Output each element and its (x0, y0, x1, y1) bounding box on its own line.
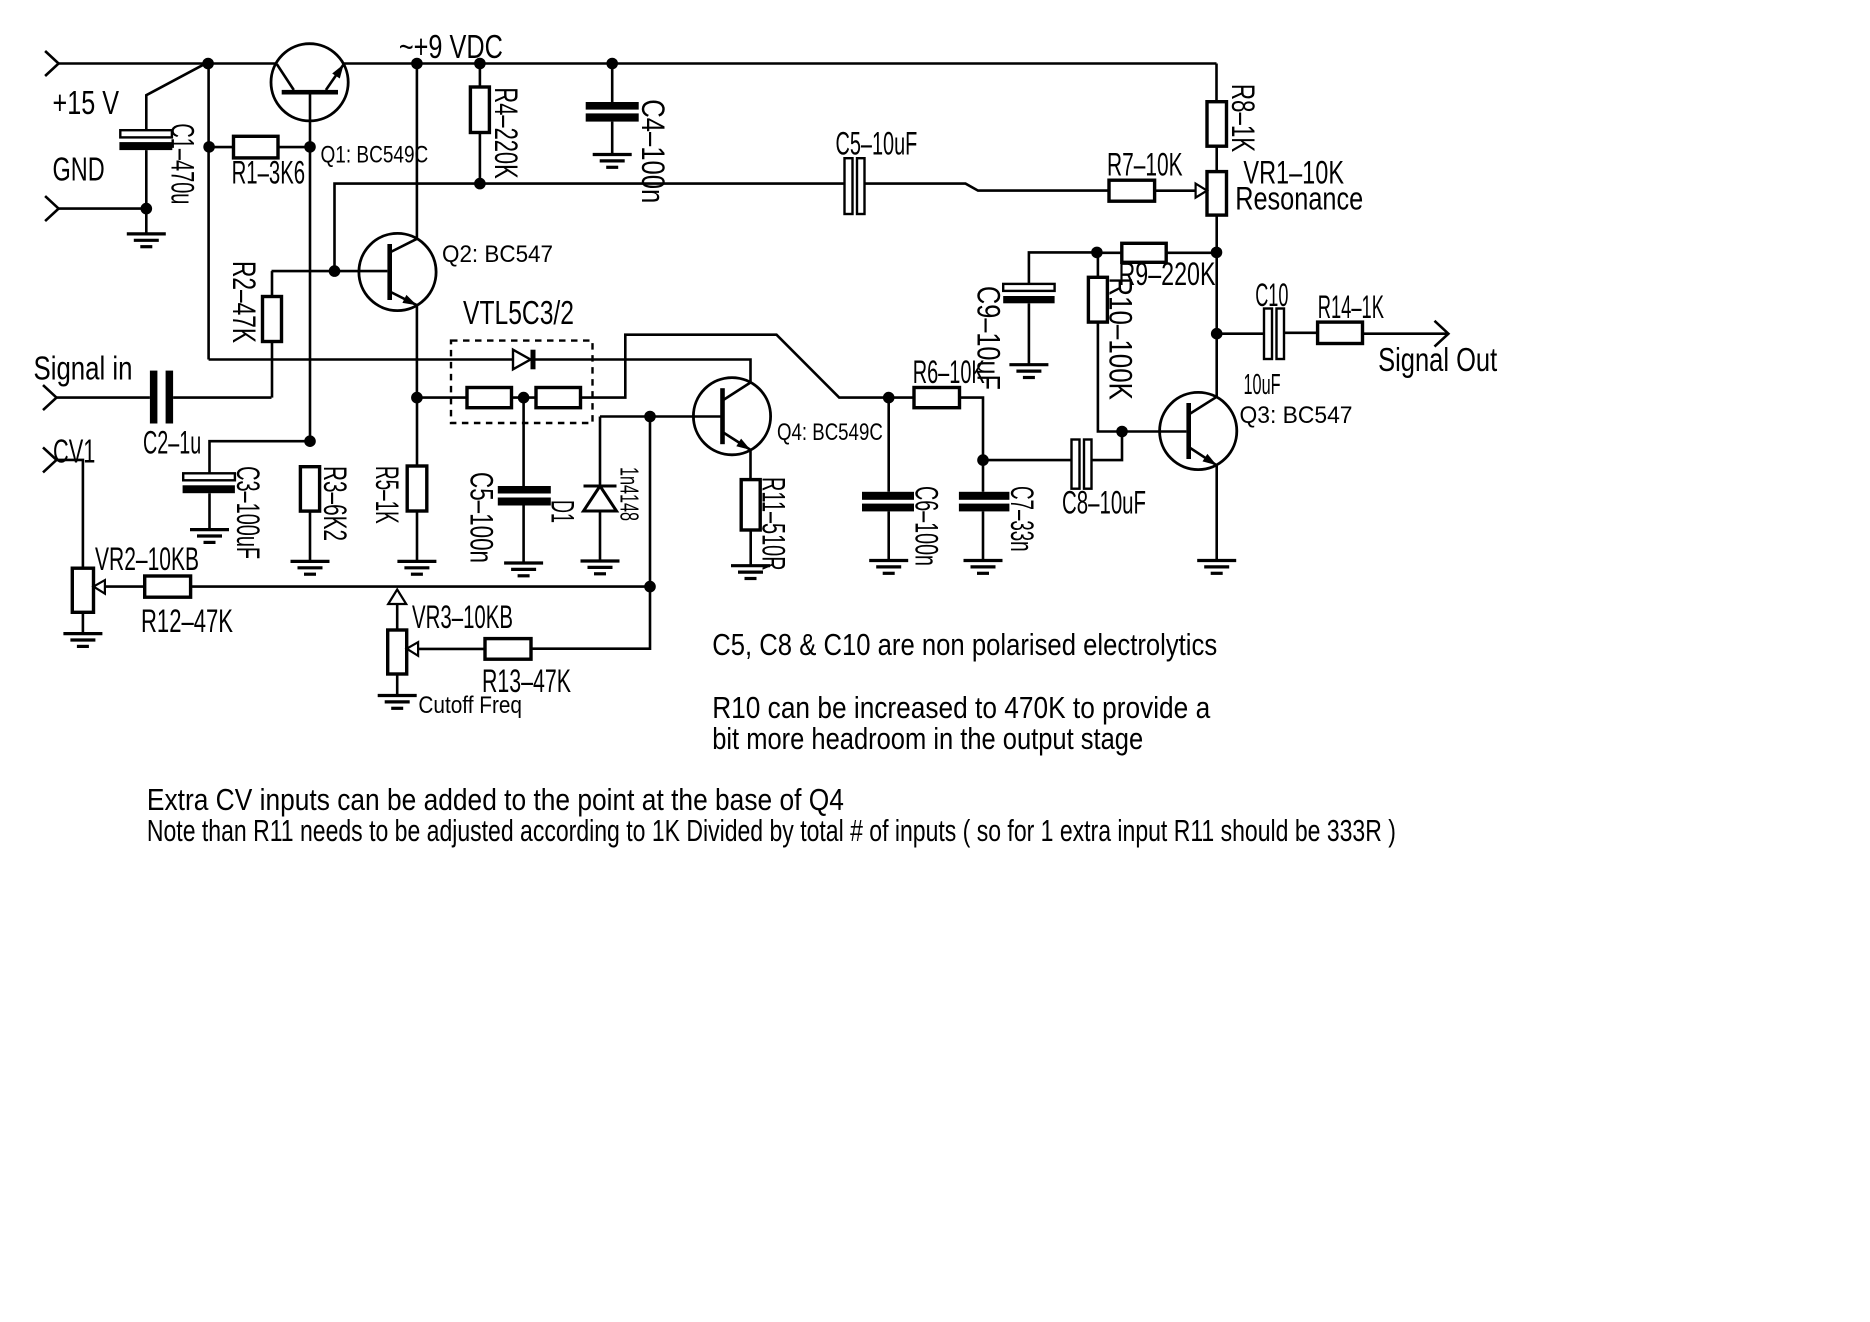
wire R12 to Q4 base vertical (191, 585, 650, 588)
potentiometer VR1 10K Resonance (1196, 146, 1227, 252)
junction R6 left / C6 node (883, 392, 895, 404)
resistor R4 220K (470, 64, 489, 184)
svg-text:C4–100n: C4–100n (635, 99, 671, 203)
resistor R3 6K2 (300, 467, 319, 562)
ground C1 (127, 234, 166, 247)
capacitor C6 100n (862, 398, 914, 561)
connector Signal Out arrow (1435, 321, 1449, 347)
svg-text:C5, C8 & C10 are non polarised: C5, C8 & C10 are non polarised electroly… (712, 628, 1217, 662)
capacitor C7 33n (959, 460, 1010, 560)
ground R11 (731, 566, 770, 579)
svg-text:C2–1u: C2–1u (143, 425, 201, 461)
svg-text:R10 can be increased to 470K t: R10 can be increased to 470K to provide … (712, 691, 1211, 725)
svg-text:C1–470u: C1–470u (165, 123, 201, 204)
svg-text:C5–100n: C5–100n (464, 472, 500, 563)
capacitor C1 470u polarised (119, 130, 172, 234)
junction GND-C1 (141, 203, 153, 215)
svg-text:R7–10K: R7–10K (1107, 147, 1183, 183)
svg-text:C3–100uF: C3–100uF (230, 466, 266, 559)
junction LDR centre node (518, 392, 530, 404)
wire GND input to C1 (59, 207, 147, 210)
resistor R5 1K (407, 398, 427, 562)
resistor R6 10K (889, 388, 960, 408)
wire Q4 base node down to R12/R13 node (649, 417, 652, 587)
junction Q4 base node (644, 411, 656, 423)
svg-text:CV1: CV1 (53, 432, 95, 469)
svg-text:C8–10uF: C8–10uF (1062, 485, 1146, 521)
resistor R11 510R (741, 480, 760, 566)
wire LDR centre down to C5b (522, 398, 525, 486)
wire Q4 emitter to R11 (749, 450, 752, 480)
ground C5b (504, 563, 543, 576)
junction rail-R4 (474, 58, 486, 70)
svg-text:VTL5C3/2: VTL5C3/2 (463, 294, 574, 331)
ground R3 (291, 561, 330, 574)
resistor R8 1K (1207, 102, 1227, 147)
ground VR3 (378, 696, 417, 709)
svg-text:Q2: BC547: Q2: BC547 (442, 241, 553, 268)
vactrol LDR element 2 (536, 388, 581, 408)
ground C3 (190, 530, 229, 543)
wire rail to C1 diagonal (146, 62, 208, 130)
svg-text:10uF: 10uF (1244, 369, 1281, 401)
diode D1 1n4148 (584, 417, 617, 562)
wire R10 down to Q3 base node (1098, 322, 1122, 431)
junction R1 left (203, 141, 215, 153)
wire Signal in to C2 (57, 396, 150, 399)
resistor R1 3K6 (209, 136, 310, 158)
junction R4 bottom (474, 178, 486, 190)
ground C4 (593, 155, 632, 168)
wire ~+9VDC rail from Q1 emitter (344, 62, 1217, 65)
wire LDR2 right up and over to R6 (581, 335, 889, 398)
wire Q3 base (1122, 430, 1186, 433)
svg-text:R13–47K: R13–47K (482, 663, 571, 699)
svg-text:Resonance: Resonance (1235, 181, 1363, 217)
capacitor C5 100n (498, 486, 551, 563)
ground D1 (581, 561, 620, 574)
ground Q3 emitter (1197, 561, 1236, 574)
connector CV1 (43, 447, 57, 472)
ground C9 (1009, 365, 1048, 378)
junction rail-Q2 collector (411, 58, 423, 70)
junction R9 right on main vertical (1211, 247, 1223, 259)
transistor Q1 BC549C (271, 44, 348, 121)
junction C7/C8 node (977, 454, 989, 466)
connector +15V input (45, 51, 59, 76)
svg-text:1n4148: 1n4148 (615, 467, 645, 521)
junction R1 right / Q1 base (304, 141, 316, 153)
wire Q3 emitter to ground (1215, 465, 1218, 560)
wire C2 to R2 bottom (173, 396, 271, 399)
capacitor C9 10uF polarised (1003, 252, 1097, 364)
svg-text:R1–3K6: R1–3K6 (232, 155, 306, 191)
svg-text:R5–1K: R5–1K (369, 466, 405, 524)
svg-text:VR2–10KB: VR2–10KB (95, 541, 199, 577)
wire Q2 emitter down to LDR node (416, 305, 419, 397)
junction rail-C4 (606, 58, 618, 70)
junction C3/R3 node (304, 435, 316, 447)
junction R10 top / C9 node (1091, 247, 1103, 259)
wire rail junction down to diode row (207, 64, 210, 360)
wire rail down to Q2 collector (416, 64, 419, 239)
wire LDR1 to LDR2 (512, 396, 537, 399)
wire VR1 bottom to Q3 collector (1215, 252, 1218, 396)
potentiometer VR2 10KB (72, 568, 105, 633)
junction Q2 base node (329, 265, 341, 277)
capacitor C4 100n (586, 64, 639, 155)
transistor Q3 BC547 (1160, 392, 1237, 469)
svg-text:C9–10uF: C9–10uF (971, 286, 1007, 390)
wire CV1 to VR2 (57, 460, 83, 568)
svg-text:+15 V: +15 V (53, 84, 120, 121)
wire +15V rail to Q1 collector (59, 62, 277, 65)
svg-text:C10: C10 (1255, 277, 1288, 313)
svg-text:Q1: BC549C: Q1: BC549C (321, 142, 429, 169)
svg-text:C6–100n: C6–100n (909, 486, 945, 566)
svg-text:Signal in: Signal in (34, 349, 133, 386)
svg-text:R11–510R: R11–510R (756, 477, 792, 571)
svg-text:R12–47K: R12–47K (141, 603, 233, 639)
svg-text:Q4: BC549C: Q4: BC549C (777, 419, 883, 446)
resistor R10 100K (1088, 252, 1107, 322)
capacitor C2 1u (150, 371, 173, 424)
svg-text:VR3–10KB: VR3–10KB (412, 599, 513, 635)
junction R12/VR3/R13 node (644, 581, 656, 593)
wire Q1 base down to C3/R3 node (309, 92, 312, 441)
ground C6 (869, 561, 908, 574)
wire R4 node to C5 (480, 182, 845, 185)
junction C10 node (1211, 328, 1223, 340)
wire R6 to C7/C8 node (960, 398, 984, 461)
junction LDR left node (411, 392, 423, 404)
svg-text:GND: GND (53, 151, 105, 188)
svg-text:Signal Out: Signal Out (1378, 341, 1497, 378)
wire R4 node to Q2 base corner (335, 184, 480, 272)
transistor Q4 BC549C (693, 378, 770, 455)
resistor R13 47K (418, 639, 531, 660)
svg-text:Q3: BC547: Q3: BC547 (1240, 402, 1353, 429)
svg-text:R8–1K: R8–1K (1225, 84, 1261, 152)
wire R14 to Signal Out (1363, 332, 1449, 335)
svg-text:D1: D1 (545, 500, 581, 523)
potentiometer VR3 10KB Cutoff Freq (388, 590, 418, 696)
svg-text:R10–100K: R10–100K (1102, 277, 1138, 400)
svg-text:R2–47K: R2–47K (226, 261, 262, 343)
capacitor C5 10uF non-polarised (845, 158, 865, 214)
transistor Q2 BC547 (359, 233, 436, 310)
resistor R7 10K (1109, 180, 1196, 201)
resistor R12 47K (105, 576, 191, 597)
junction rail-C1 (202, 58, 214, 70)
resistor R9 220K (1097, 243, 1217, 262)
vactrol VTL5C3/2 dashed enclosure (451, 341, 593, 423)
svg-text:C7–33n: C7–33n (1004, 486, 1040, 552)
svg-text:R14–1K: R14–1K (1318, 289, 1384, 325)
connector GND input (45, 196, 59, 221)
svg-text:Extra CV inputs can be added t: Extra CV inputs can be added to the poin… (147, 783, 844, 817)
wire C5 to R7 with jog (865, 184, 1110, 191)
svg-text:bit more headroom in the outpu: bit more headroom in the output stage (712, 722, 1143, 756)
ground VR2 (63, 634, 102, 647)
svg-text:R4–220K: R4–220K (488, 87, 524, 178)
connector Signal in (43, 385, 57, 410)
vactrol LDR element 1 (467, 388, 512, 408)
wire D1/Q4 base (600, 415, 723, 418)
wire rail corner down to R8 (1215, 64, 1218, 102)
wire node down to R13 (531, 587, 650, 649)
wire C10 branch (1217, 332, 1264, 335)
capacitor C10 10uF non-polarised (1264, 309, 1284, 360)
vactrol LED diode (513, 350, 536, 370)
ground R5 (397, 561, 436, 574)
capacitor C3 100uF polarised (183, 441, 310, 529)
wire Q2 base (272, 270, 388, 273)
wire diode to Q4 collector (536, 360, 751, 383)
svg-text:C5–10uF: C5–10uF (836, 126, 918, 162)
resistor R14 1K (1284, 322, 1363, 343)
wire diode row (209, 358, 513, 361)
resistor R2 47K (263, 271, 282, 398)
ground C7 (964, 561, 1003, 574)
svg-text:Note than R11 needs to be adju: Note than R11 needs to be adjusted accor… (147, 814, 1396, 848)
junction Q3 base node (1116, 426, 1128, 438)
svg-text:R9–220K: R9–220K (1119, 256, 1216, 292)
wire Q2 emitter node to LDR1 (417, 396, 467, 399)
svg-text:R3–6K2: R3–6K2 (317, 466, 353, 541)
capacitor C8 10uF non-polarised (983, 432, 1122, 489)
